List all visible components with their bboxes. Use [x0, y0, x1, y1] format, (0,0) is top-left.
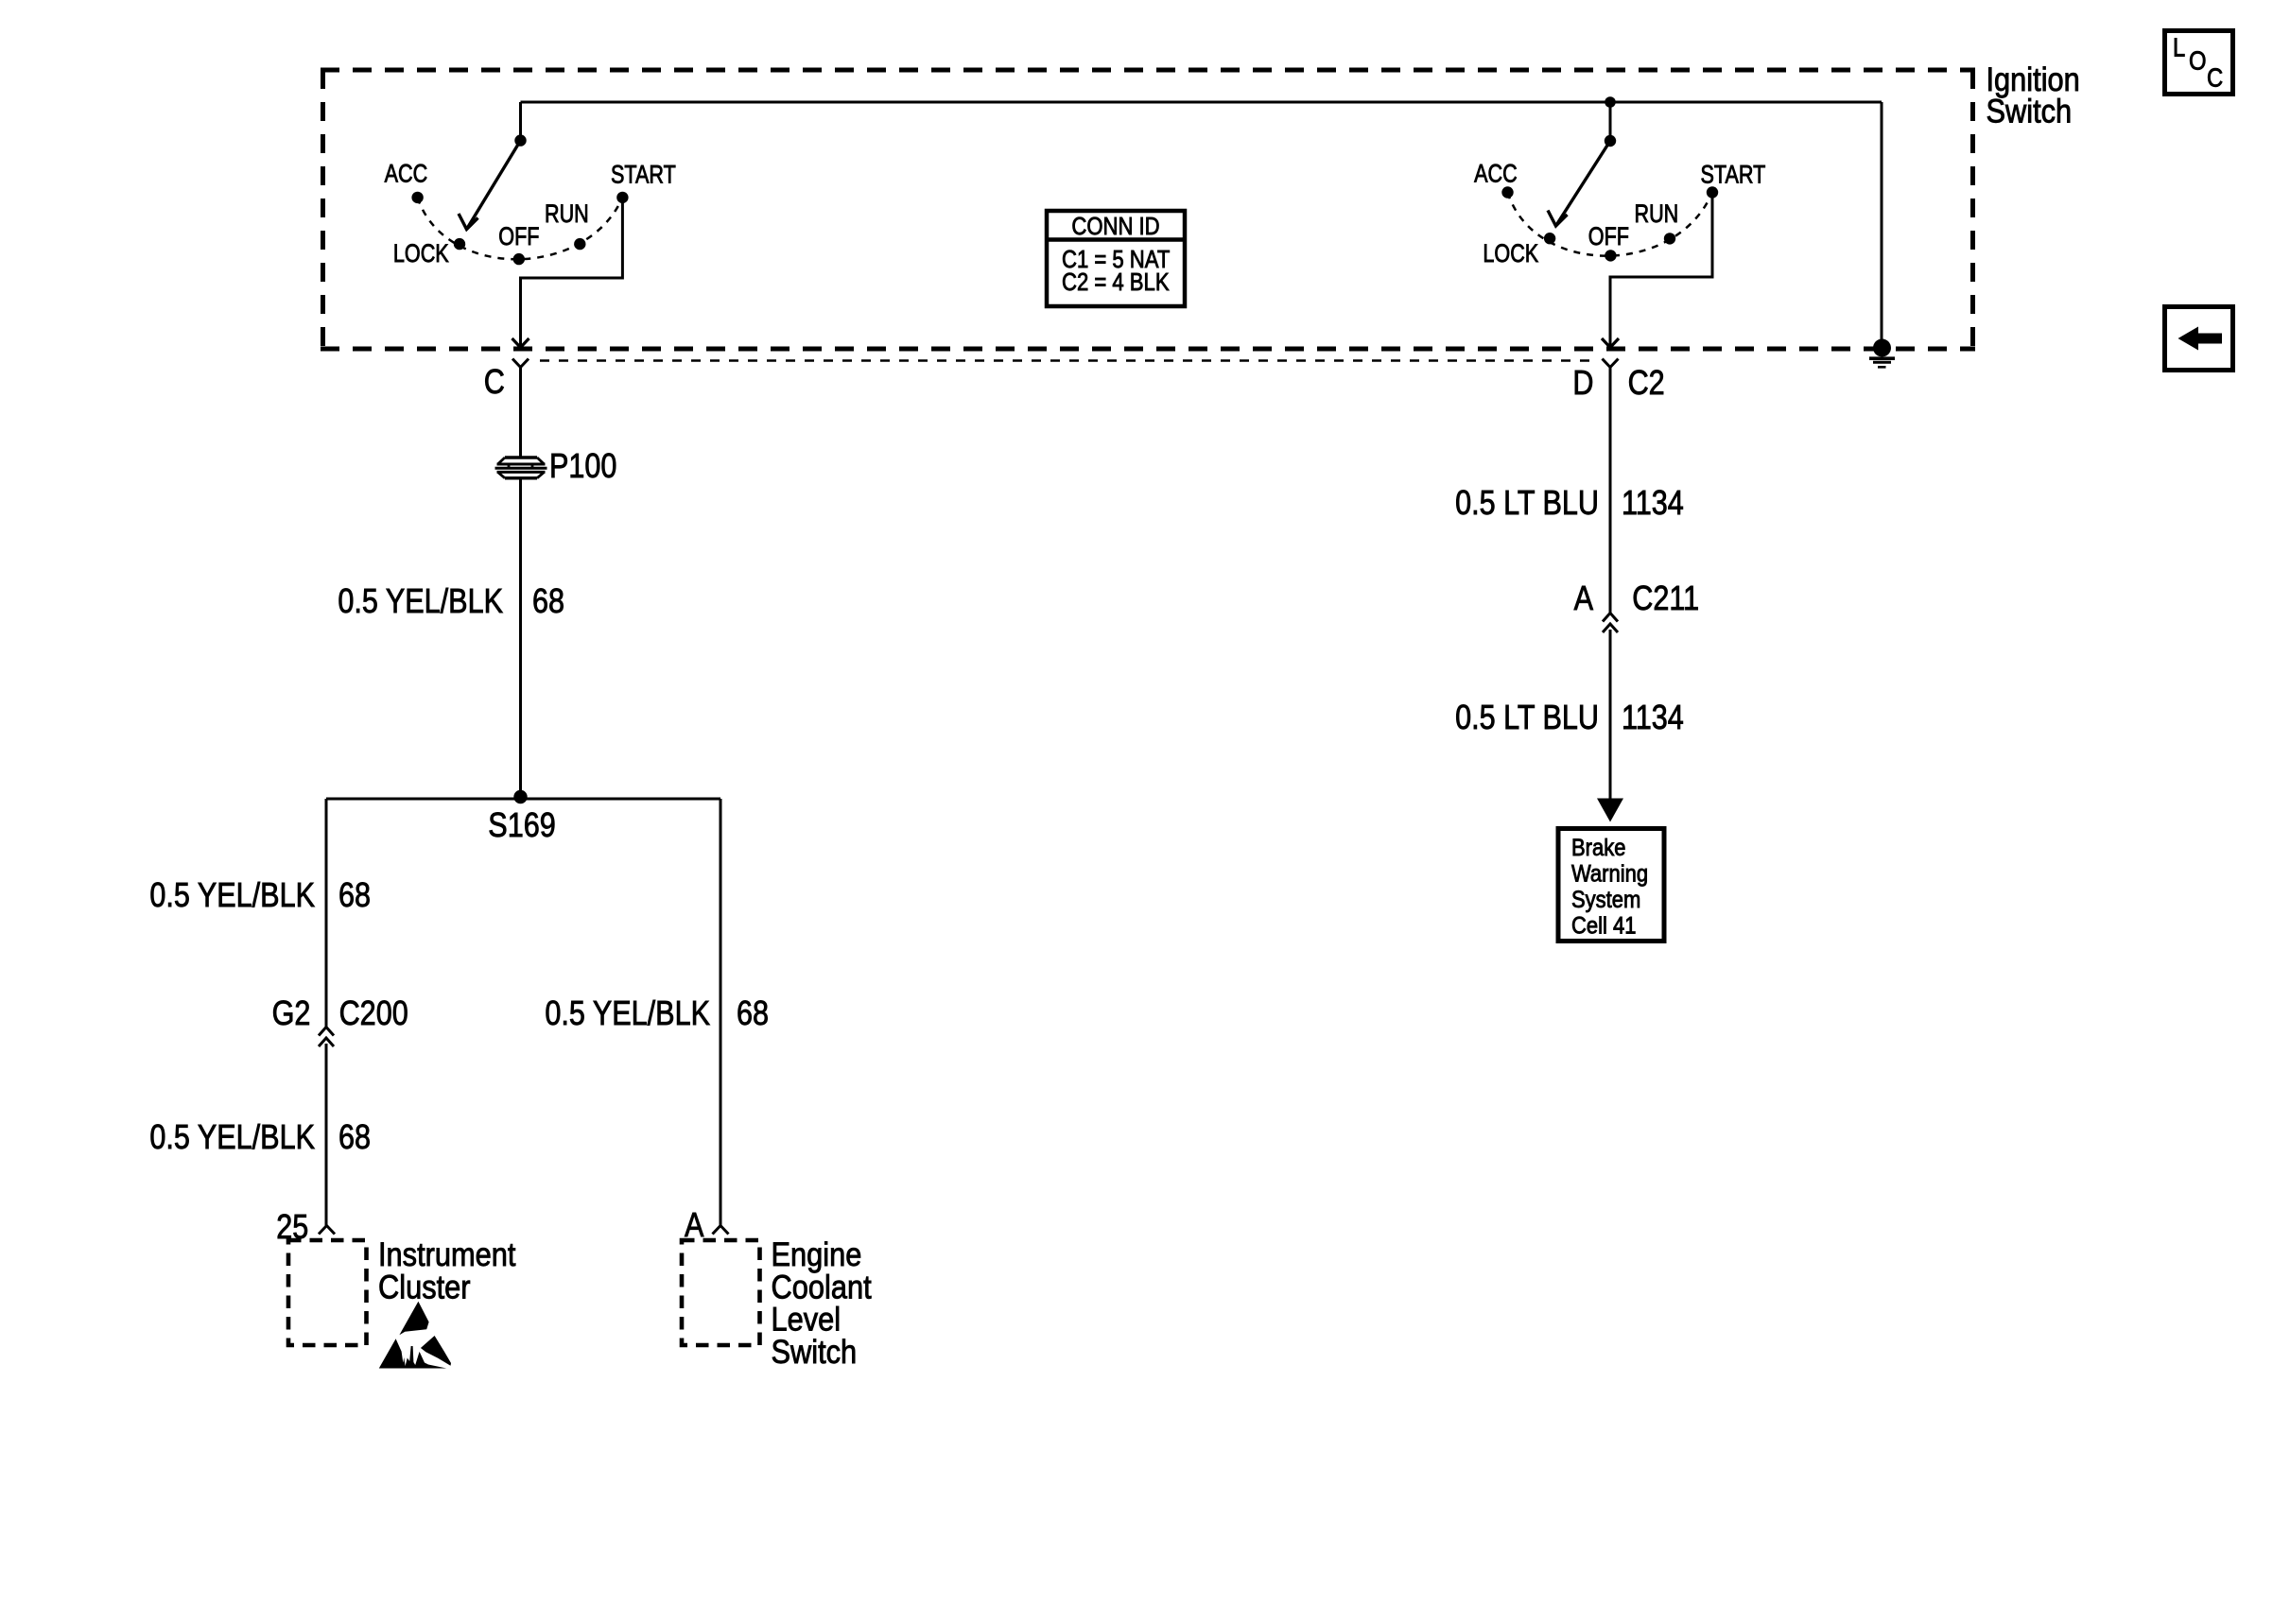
connector C terminal chevron: [512, 359, 529, 368]
svg-text:Brake: Brake: [1571, 835, 1625, 861]
wire: top feed bus inside ignition switch: [521, 101, 1883, 104]
wire: C output down to P100: [519, 368, 522, 458]
svg-text:OFF: OFF: [1588, 223, 1629, 251]
svg-text:1134: 1134: [1622, 485, 1684, 523]
svg-text:C200: C200: [339, 995, 408, 1033]
svg-text:O: O: [2189, 45, 2207, 76]
wire: left branch down to C200: [325, 799, 328, 1027]
svg-text:ACC: ACC: [385, 160, 428, 188]
svg-text:0.5 LT BLU: 0.5 LT BLU: [1455, 700, 1599, 737]
grommet P100: [495, 458, 547, 478]
svg-text:RUN: RUN: [545, 200, 589, 229]
engine coolant level switch dashed box: [682, 1240, 760, 1345]
instrument cluster dashed box: [288, 1240, 367, 1345]
open arrowhead at ignition switch case (D): [1602, 338, 1619, 348]
svg-text:C211: C211: [1632, 580, 1699, 618]
right switch position arc: [1508, 193, 1713, 256]
left switch movable arm with arrowhead: [459, 141, 521, 230]
node: LOCK contact (right): [1544, 233, 1555, 244]
wire: D/C2 down to C211: [1609, 368, 1612, 613]
node: RUN contact (right): [1664, 233, 1675, 244]
svg-text:68: 68: [737, 995, 769, 1033]
wire: C200 down to instrument cluster: [325, 1044, 328, 1226]
svg-text:RUN: RUN: [1635, 200, 1679, 229]
wire: right pivot riser: [1609, 102, 1612, 141]
wire: right branch down to coolant level switch: [720, 799, 722, 1226]
svg-text:S169: S169: [488, 807, 555, 845]
svg-text:Level: Level: [772, 1301, 842, 1338]
brake warning system cell 41 box: [1558, 829, 1664, 942]
svg-text:System: System: [1571, 887, 1640, 913]
connector C211 double chevron: [1603, 613, 1618, 633]
right switch movable arm with arrowhead: [1548, 141, 1610, 226]
svg-text:OFF: OFF: [498, 223, 539, 251]
node: OFF contact (right): [1605, 250, 1616, 261]
svg-text:68: 68: [338, 877, 371, 915]
svg-text:START: START: [611, 161, 676, 189]
svg-text:P100: P100: [549, 448, 616, 486]
node: LOCK contact (left): [454, 238, 465, 250]
ground G: [1869, 339, 1895, 368]
wire: C211 down to brake warning system: [1609, 630, 1612, 800]
svg-text:Warning: Warning: [1571, 860, 1648, 887]
connector D/C2 terminal chevron: [1603, 359, 1619, 368]
node: START contact (right): [1707, 186, 1718, 198]
svg-text:START: START: [1701, 161, 1766, 189]
svg-text:0.5 YEL/BLK: 0.5 YEL/BLK: [149, 877, 315, 915]
svg-text:Switch: Switch: [1987, 93, 2073, 130]
svg-text:68: 68: [338, 1119, 371, 1157]
ignition switch component dashed box: [321, 70, 1975, 349]
wire: splice bus: [326, 798, 720, 801]
svg-text:0.5 LT BLU: 0.5 LT BLU: [1455, 485, 1599, 523]
svg-text:D: D: [1572, 365, 1593, 403]
svg-text:68: 68: [532, 583, 564, 621]
svg-text:C2: C2: [1628, 365, 1665, 403]
ESD sensitive device symbol: [379, 1302, 451, 1369]
svg-text:LOCK: LOCK: [1483, 240, 1538, 268]
connector C200 double chevron: [319, 1028, 334, 1047]
LOC reference box: [2165, 31, 2233, 95]
wire: P100 down to S169: [519, 478, 522, 799]
svg-text:0.5 YEL/BLK: 0.5 YEL/BLK: [545, 995, 710, 1033]
wire: left pivot riser: [519, 102, 522, 141]
label Ignition Switch: [1987, 60, 2080, 130]
wire: right START contact drop to output: [1610, 193, 1712, 346]
node: right switch pivot: [1605, 135, 1616, 147]
svg-text:CONN ID: CONN ID: [1071, 213, 1159, 240]
open arrowhead at ignition switch case (C): [512, 338, 529, 348]
terminal chevron at coolant level switch: [713, 1226, 729, 1235]
wire: right end drop to ground: [1881, 102, 1883, 340]
svg-text:C2 = 4 BLK: C2 = 4 BLK: [1062, 268, 1170, 296]
svg-text:Cell 41: Cell 41: [1571, 912, 1636, 939]
svg-text:ACC: ACC: [1474, 160, 1518, 188]
label Engine Coolant Level Switch: [772, 1235, 872, 1370]
svg-text:1134: 1134: [1622, 700, 1684, 737]
svg-text:C: C: [484, 364, 505, 402]
filled arrowhead into brake warning system: [1597, 799, 1623, 822]
svg-text:LOCK: LOCK: [393, 240, 449, 268]
node: ACC contact (left): [411, 192, 423, 203]
wire: left START contact drop to output: [521, 198, 623, 346]
node: left switch pivot: [514, 134, 526, 146]
splice node S169: [513, 790, 527, 803]
svg-text:L: L: [2173, 32, 2185, 62]
svg-text:Switch: Switch: [772, 1333, 858, 1370]
left switch position arc: [418, 198, 623, 259]
in-line harness connector dashed line (C1/C2 boundary): [540, 359, 1596, 362]
svg-text:G2: G2: [272, 995, 311, 1033]
node: junction dot on top bus: [1605, 96, 1616, 108]
svg-text:0.5 YEL/BLK: 0.5 YEL/BLK: [149, 1119, 315, 1157]
CONN ID table: [1047, 211, 1185, 306]
node: OFF contact (left): [513, 253, 525, 265]
back arrow box: [2165, 307, 2233, 371]
label Instrument Cluster: [378, 1235, 515, 1305]
svg-text:C: C: [2207, 62, 2223, 93]
terminal chevron at instrument cluster: [319, 1226, 335, 1235]
svg-text:Cluster: Cluster: [378, 1268, 471, 1304]
svg-text:0.5 YEL/BLK: 0.5 YEL/BLK: [338, 583, 503, 621]
svg-text:A: A: [1574, 580, 1594, 618]
node: RUN contact (left): [574, 238, 585, 250]
node: START contact (left): [616, 192, 628, 203]
node: ACC contact (right): [1501, 186, 1513, 198]
